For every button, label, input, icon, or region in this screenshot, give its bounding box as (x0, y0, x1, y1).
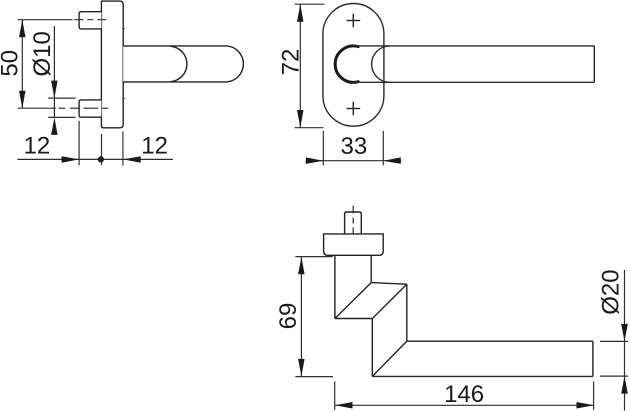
oval rosette (front view) (323, 4, 384, 127)
rosette (top view) (324, 234, 384, 255)
dimension D20 extension bottom (600, 375, 628, 377)
neck left edge (334, 255, 336, 318)
grip dome cap arc (front view) (372, 46, 390, 82)
dimension D10 arrow up (51, 117, 58, 134)
dimension 72 extension bottom (295, 127, 324, 129)
dimension 12 junction dot (98, 156, 104, 162)
svg-text:69: 69 (275, 303, 302, 330)
top screw centerline (18, 19, 73, 21)
bottom screw centerline (18, 107, 56, 109)
dimension D20 line upper (624, 270, 626, 411)
hidden-edge tick upper (122, 28, 125, 30)
bar bottom edge (top view) (372, 375, 593, 377)
dimension 69 arrow up (298, 257, 305, 275)
hidden-edge tick lower (122, 98, 125, 100)
dimension 50 line (21, 20, 23, 109)
dimension 12-12 line (18, 158, 174, 160)
bar left diagonal (372, 341, 407, 376)
dimension 12 left arrow (62, 156, 80, 163)
dimension 146 extension left (334, 382, 336, 410)
svg-text:12: 12 (141, 132, 168, 159)
svg-text:146: 146 (444, 381, 484, 408)
extension line rosette right (122, 132, 124, 166)
square spindle (345, 212, 362, 234)
crank upper diagonal (335, 283, 371, 319)
extension line screw edge (78, 121, 80, 166)
dimension 33 extension right (382, 131, 384, 165)
crank right edge (406, 284, 408, 341)
svg-text:50: 50 (0, 50, 24, 77)
bottom screw slot plus (347, 102, 361, 116)
spindle centerline (352, 206, 354, 214)
dimension 69 extension top (295, 256, 332, 258)
dimension D10 arrow down (51, 81, 58, 99)
dimension D20 extension top (600, 340, 628, 342)
rosette (side view) (101, 1, 123, 128)
svg-text:12: 12 (24, 132, 51, 159)
bar end edge (top view) (592, 341, 594, 376)
dimension D10 extension top (48, 97, 75, 99)
dimension 72 line (299, 4, 301, 127)
dimension D20 arrow up (621, 376, 628, 394)
bottom fixing screw (79, 100, 101, 117)
lever bar end line (front view) (593, 46, 595, 82)
crank lower diagonal (372, 284, 406, 318)
svg-text:Ø20: Ø20 (597, 269, 624, 314)
dimension 69 extension bottom (295, 376, 333, 378)
svg-text:72: 72 (278, 49, 305, 76)
dimension 69 arrow down (298, 359, 305, 377)
dimension 69 line (300, 257, 302, 377)
dimension 72 extension top (295, 3, 325, 5)
svg-text:33: 33 (341, 133, 368, 160)
crank top edge (371, 283, 407, 285)
dimension 146 line (335, 404, 594, 406)
neck right edge (370, 255, 372, 282)
dimension D10 line upper (53, 26, 55, 117)
dimension 50 arrow up (19, 20, 26, 38)
dimension 50 arrow down (19, 91, 26, 109)
handle bar (side view) (123, 46, 243, 82)
bar top edge (top view) (407, 340, 593, 342)
dimension 146 left arrow (335, 402, 353, 409)
dimension D20 arrow down (621, 324, 628, 342)
lever bar bottom line (front view) (353, 81, 594, 83)
dimension 33 right arrow (383, 157, 401, 164)
dimension 33 extension left (322, 131, 324, 165)
dimension D10 extension bottom (48, 116, 75, 118)
lever bar top line (front view) (353, 45, 594, 47)
top fixing screw (79, 12, 101, 29)
dimension 146 right arrow (577, 402, 595, 409)
dimension 33 line (306, 160, 402, 162)
crank left lower edge (371, 319, 373, 377)
dimension 12 right arrow (123, 156, 141, 163)
dimension 72 arrow down (297, 110, 304, 128)
extension line rosette left (101, 134, 103, 165)
crank bottom edge (335, 318, 373, 320)
dimension 33 left arrow (306, 157, 324, 164)
svg-text:Ø10: Ø10 (29, 31, 56, 76)
dimension 72 arrow up (297, 4, 304, 22)
neck circle thick arc (front view) (335, 46, 358, 82)
top screw slot plus (347, 14, 361, 28)
dimension 146 extension right (593, 382, 595, 410)
grip transition arc (side view) (171, 46, 187, 81)
